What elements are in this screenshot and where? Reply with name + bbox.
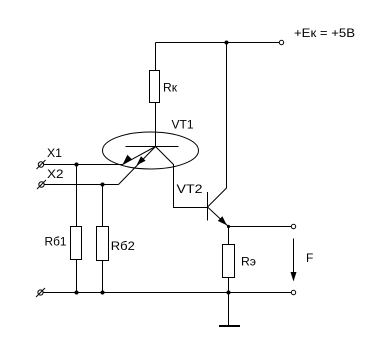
terminal X1 (pin with slash) [37,160,46,169]
transistor VT1 emitter 2 [119,147,156,185]
resistor Re [223,245,235,278]
wire: emitter junction to Re [228,227,230,245]
svg-text:+Eк = +5В: +Eк = +5В [294,26,355,40]
wire: Rk to VT1 base bar [155,103,157,147]
transistor VT2 collector + wire to top rail [208,43,227,208]
svg-text:X2: X2 [47,167,64,181]
wire: bottom rail [43,292,292,294]
ground [219,293,240,327]
wire: VT1 collector to VT2 base [156,147,208,208]
node: junction dot Rb2/rail [101,291,105,295]
svg-text:Rк: Rк [163,81,178,95]
transistor VT2 base bar [207,192,209,221]
svg-text:Rб2: Rб2 [111,239,135,253]
resistor Rb1 [71,227,82,260]
svg-text:X1: X1 [47,146,62,160]
resistor Rk [150,71,160,103]
wire: Re to bottom rail [228,278,230,293]
node: junction dot on top rail (VT2 collector) [225,41,229,45]
terminal bottom-right (open circle) [291,290,295,294]
transistor VT2 emitter [208,207,229,227]
node: junction dot X1/Rb1 [75,163,79,167]
wire: emitter to output terminal [229,226,292,228]
node: junction dot Rb1/rail [75,291,79,295]
node: VT2 emitter junction [227,225,230,228]
wire: X2 node down to Rb2 [102,185,104,227]
transistor VT1 emitter 1 [123,147,156,165]
node: junction dot X2/Rb2 [101,183,105,187]
wire: Rb2 to bottom rail [102,261,104,293]
wire X2 input [44,184,118,186]
svg-text:VT2: VT2 [177,182,203,196]
wire: X1 node down to Rb1 [76,165,78,227]
resistor Rb2 [97,227,109,261]
wire X1 input [44,164,123,166]
wire: rail to Rk [155,43,157,71]
svg-text:Rб1: Rб1 [45,235,67,249]
svg-text:VT1: VT1 [172,118,194,132]
transistor VT1 envelope (ellipse) [103,132,199,169]
svg-text:F: F [306,251,313,265]
transistor VT1 base bar [126,146,179,148]
node: junction dot Re/rail [227,291,231,295]
terminal output (open circle) [291,224,295,228]
terminal +Ek (open circle) [279,40,283,44]
wire: Rb1 to bottom rail [76,260,78,293]
terminal X2 (pin with slash) [37,180,46,189]
svg-text:Rэ: Rэ [241,255,256,269]
wire: +E top rail [156,42,280,44]
arrow F (output direction) [291,239,297,282]
terminal bottom-left (pin with slash) [36,288,45,297]
